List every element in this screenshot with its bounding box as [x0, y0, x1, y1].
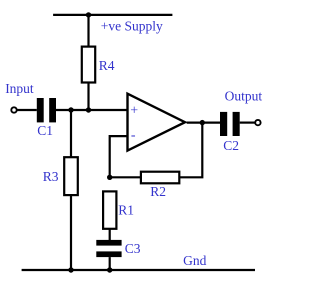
svg-text:C1: C1 — [37, 123, 53, 138]
node: feedback junction — [107, 175, 112, 180]
wire: C3 to ground rail — [109, 257, 111, 270]
node: R4 / input junction — [86, 107, 91, 112]
wire: R1 to C3 — [109, 229, 111, 240]
resistor R2 — [141, 172, 179, 184]
resistor R1 — [103, 191, 116, 228]
wire: feedback node to R2 — [110, 176, 140, 178]
node: output junction — [200, 120, 205, 125]
wire: R3 to ground rail — [70, 195, 72, 270]
node: C1 / R3 junction — [68, 107, 73, 112]
svg-text:Output: Output — [225, 89, 263, 104]
svg-text:+ve Supply: +ve Supply — [101, 19, 163, 34]
svg-text:R3: R3 — [43, 169, 59, 184]
svg-text:C3: C3 — [125, 241, 141, 256]
wire: C2 to output terminal — [240, 121, 255, 123]
wire: junction down to R3 — [70, 110, 72, 157]
ground rail — [22, 269, 255, 271]
svg-text:C2: C2 — [223, 138, 239, 153]
capacitor C2 — [220, 112, 227, 136]
input terminal — [11, 107, 16, 112]
svg-text:Gnd: Gnd — [183, 253, 206, 268]
capacitor C3 — [96, 240, 121, 246]
svg-text:-: - — [131, 128, 136, 143]
svg-text:R1: R1 — [118, 203, 134, 218]
svg-text:+: + — [130, 103, 138, 118]
wire: supply rail down to R4 — [87, 15, 89, 47]
wire: R2 to output node — [180, 123, 203, 177]
svg-text:R2: R2 — [150, 184, 166, 199]
svg-text:R4: R4 — [99, 58, 115, 73]
output terminal — [255, 120, 260, 125]
capacitor C1 — [37, 98, 44, 122]
node: R3 ground junction — [68, 267, 73, 272]
node: C3 ground junction — [107, 267, 112, 272]
wire: op-amp output to C2 — [187, 121, 220, 123]
wire: input terminal to C1 — [17, 109, 37, 111]
op-amp U1 — [128, 94, 186, 151]
wire: R4 to input node — [87, 83, 89, 111]
wire: +ve supply rail — [53, 14, 172, 16]
wire: inverting input to feedback node — [110, 136, 128, 177]
node: supply rail / R4 junction — [86, 12, 91, 17]
svg-text:Input: Input — [5, 81, 34, 96]
resistor R4 — [82, 47, 95, 83]
wire: C1 to op-amp non-inverting input — [56, 109, 128, 111]
resistor R3 — [64, 157, 78, 195]
